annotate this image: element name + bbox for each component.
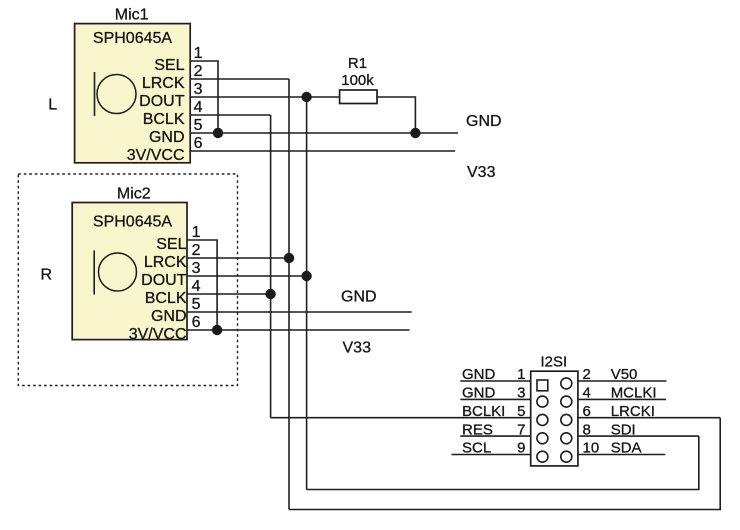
svg-text:MCLKI: MCLKI — [611, 385, 657, 402]
svg-text:BCLK: BCLK — [145, 290, 187, 307]
svg-text:4: 4 — [194, 99, 203, 116]
svg-text:BCLKI: BCLKI — [462, 403, 505, 420]
svg-text:3V/VCC: 3V/VCC — [127, 147, 185, 164]
svg-text:GND: GND — [149, 129, 185, 146]
svg-text:GND: GND — [462, 385, 496, 402]
svg-text:3: 3 — [194, 81, 203, 98]
svg-text:V33: V33 — [467, 164, 496, 181]
svg-text:5: 5 — [194, 117, 203, 134]
svg-text:GND: GND — [151, 308, 187, 325]
svg-text:5: 5 — [192, 296, 201, 313]
svg-text:BCLK: BCLK — [143, 111, 185, 128]
svg-text:3V/VCC: 3V/VCC — [129, 326, 187, 343]
svg-text:2: 2 — [194, 63, 203, 80]
svg-text:V50: V50 — [611, 366, 638, 383]
svg-text:GND: GND — [466, 113, 502, 130]
svg-text:10: 10 — [583, 440, 600, 457]
svg-text:1: 1 — [192, 224, 201, 241]
svg-text:RES: RES — [462, 421, 493, 438]
svg-text:3: 3 — [517, 385, 525, 402]
svg-text:LRCK: LRCK — [142, 75, 185, 92]
svg-text:V33: V33 — [343, 340, 372, 357]
svg-text:DOUT: DOUT — [139, 93, 185, 110]
svg-text:SEL: SEL — [154, 57, 184, 74]
svg-text:6: 6 — [194, 135, 203, 152]
svg-text:L: L — [48, 97, 57, 114]
svg-text:SPH0645A: SPH0645A — [93, 30, 172, 47]
svg-text:SCL: SCL — [462, 440, 491, 457]
svg-text:3: 3 — [192, 260, 201, 277]
svg-text:SDI: SDI — [611, 421, 636, 438]
svg-text:6: 6 — [583, 403, 591, 420]
svg-text:2: 2 — [583, 366, 591, 383]
svg-text:SPH0645A: SPH0645A — [93, 214, 172, 231]
svg-text:1: 1 — [194, 45, 203, 62]
svg-text:2: 2 — [192, 242, 201, 259]
svg-text:DOUT: DOUT — [141, 272, 187, 289]
svg-text:SDA: SDA — [611, 440, 642, 457]
svg-text:I2SI: I2SI — [540, 354, 567, 371]
svg-text:LRCK: LRCK — [144, 254, 187, 271]
svg-text:4: 4 — [583, 385, 591, 402]
svg-text:7: 7 — [517, 421, 525, 438]
svg-text:6: 6 — [192, 314, 201, 331]
svg-text:LRCKI: LRCKI — [611, 403, 655, 420]
svg-text:R: R — [41, 267, 53, 284]
svg-text:SEL: SEL — [156, 236, 186, 253]
svg-text:R1: R1 — [348, 55, 367, 72]
svg-text:GND: GND — [341, 289, 377, 306]
svg-text:100k: 100k — [341, 72, 374, 89]
svg-text:1: 1 — [517, 366, 525, 383]
svg-text:GND: GND — [462, 366, 496, 383]
svg-text:9: 9 — [517, 440, 525, 457]
svg-text:Mic1: Mic1 — [115, 7, 149, 24]
svg-text:5: 5 — [517, 403, 525, 420]
svg-text:4: 4 — [192, 278, 201, 295]
svg-text:8: 8 — [583, 421, 591, 438]
svg-text:Mic2: Mic2 — [117, 186, 151, 203]
